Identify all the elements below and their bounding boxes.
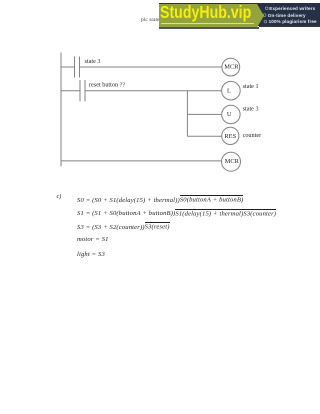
banner bottom shadow <box>159 27 259 29</box>
svg-text:U: U <box>227 111 232 118</box>
rung 2 wire (contact to coil L) <box>85 90 222 92</box>
underlying page text fragment "plc state" <box>141 17 159 23</box>
svg-text:counter: counter <box>243 132 262 139</box>
equation S3 <box>77 224 170 231</box>
rung 1 wire (contact to coil MCR) <box>80 66 222 68</box>
coil L <box>222 81 241 100</box>
banner bullet: 100% plagiarism free <box>269 19 317 24</box>
banner bullet icons <box>260 0 272 26</box>
coil MCR (top) <box>222 58 240 76</box>
watermark banner: olive left block with chevron <box>159 4 265 28</box>
coil MCR (bottom) <box>222 152 241 171</box>
rung 2 wire (rail to contact) <box>61 90 81 92</box>
svg-text:MCR: MCR <box>224 64 239 71</box>
branch wire to coil RES <box>187 135 221 137</box>
branch wire to coil U <box>187 113 221 115</box>
equation S0 <box>77 197 243 204</box>
equation S1 <box>77 210 276 217</box>
left power rail <box>60 53 62 167</box>
equation light <box>77 251 105 258</box>
svg-text:state 1: state 1 <box>243 83 259 90</box>
coil RES <box>222 127 239 144</box>
svg-text:RES: RES <box>224 133 236 140</box>
svg-text:state 3: state 3 <box>243 105 259 112</box>
contact "reset button" <box>80 80 85 101</box>
svg-text:MCR: MCR <box>225 158 240 165</box>
rung 1 wire (rail to contact) <box>61 66 75 68</box>
item label c) <box>57 193 62 200</box>
logo underline <box>161 23 254 25</box>
rung 3 wire (rail to coil MCR bottom) <box>61 160 222 162</box>
StudyHub.vip logo text <box>160 4 251 22</box>
watermark banner: navy right block <box>159 3 320 26</box>
svg-text:L: L <box>227 87 231 94</box>
coil U <box>222 105 240 123</box>
contact "state 3" <box>75 57 80 78</box>
banner bullet: experienced writers <box>269 6 315 11</box>
svg-text:state 3: state 3 <box>85 58 101 65</box>
branch vertical wire <box>186 91 188 137</box>
svg-text:reset button ??: reset button ?? <box>89 81 125 88</box>
equation motor <box>77 236 109 243</box>
banner bullet: on-time delivery <box>268 13 306 18</box>
